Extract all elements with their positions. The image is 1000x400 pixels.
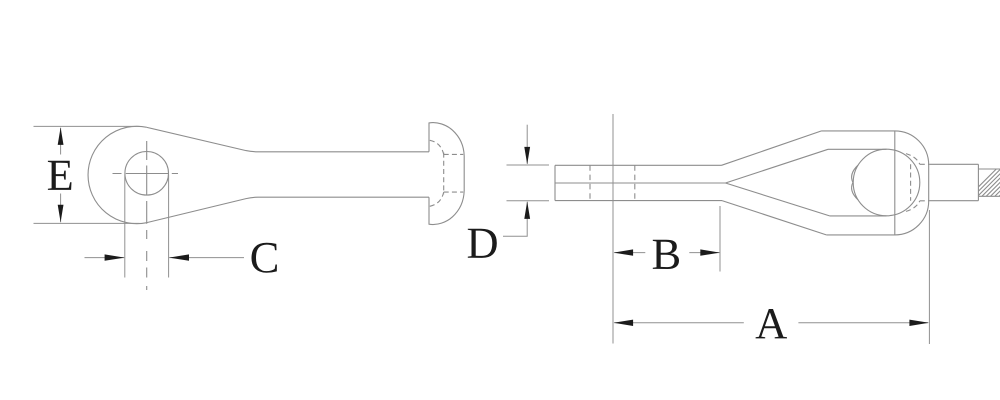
D top extension line [507,164,550,166]
C left extension line [124,175,126,278]
arrowhead A left [614,320,634,326]
A B left extension line [612,114,614,344]
hidden bore horizontal bottom [920,200,929,202]
arrowhead D top [524,147,530,165]
C dimension line right tail [169,257,244,259]
cable end crescents seen in hole [852,165,858,200]
hidden bore vertical [910,164,912,201]
arrowhead B left [614,249,634,255]
label B [653,240,679,269]
centerline vertical of hole, extends down [146,141,148,290]
arrowhead E bottom [58,205,64,223]
cap hidden bore: bottom arc [430,192,444,206]
wire: top taper of left view body [147,127,429,151]
C dimension line left tail [85,257,125,259]
cable collar end [977,164,979,200]
C right extension line [168,175,170,278]
cap hidden bore: top horizontal [444,153,464,155]
A dimension line left [614,322,744,324]
taper inner top [726,149,829,183]
arrowhead C right [169,254,189,260]
hole circle of eye [125,152,169,196]
arrowhead A right [909,320,929,326]
outer loop of eye (right view) [822,131,929,235]
cable cut-section outline [978,169,1000,196]
cable bottom edge [929,200,978,202]
arrowhead B right [700,249,720,255]
eye hole circle (right view) [853,149,920,216]
cap hidden bore: bottom horizontal [444,191,464,193]
A right extension line [928,210,930,344]
A dimension line right [798,322,928,324]
hidden bore arc bottom [906,201,920,212]
taper bottom outer [722,201,826,235]
sleeve bottom edge [555,200,722,202]
cap hidden bore: top arc [430,140,444,154]
inner loop bottom line [830,215,887,217]
hidden bore arcs right of circle: top [906,154,920,165]
hidden bore horizontal top [920,163,929,165]
B dimension line left [614,252,645,254]
E dimension line [60,128,62,222]
label E [48,161,72,190]
inner loop top line [828,148,887,150]
B right extension line [719,206,721,272]
B dimension line right [689,252,719,254]
E bottom extension line [34,222,140,224]
bend line across loop [894,131,896,235]
D dimension line top [526,125,528,164]
label D [468,229,497,258]
D bottom extension line [507,200,550,202]
taper inner bottom [726,183,830,216]
arrowhead D bottom [524,201,530,219]
cable top edge [929,163,978,165]
centerline horizontal of hole [113,173,179,175]
sleeve middle seam line [555,182,726,184]
label C [252,243,277,273]
taper top outer [722,131,822,165]
cable hatch [969,169,1000,196]
sleeve top edge [555,164,722,166]
E top extension line [34,125,140,127]
eye outline (left view big circle arc) [88,126,147,223]
cap hidden bore: vertical [443,153,445,195]
sleeve left end (right view) [554,165,556,200]
end cap outline (left view) [429,123,464,225]
arrowhead C left [105,254,125,260]
label A [756,309,787,338]
D dimension line bottom and leader [503,202,527,236]
arrowhead E top [58,127,64,144]
hidden cable end line 1 [589,165,591,200]
hidden cable end line 2 [634,165,636,200]
wire: bottom taper of left view body [147,197,429,222]
